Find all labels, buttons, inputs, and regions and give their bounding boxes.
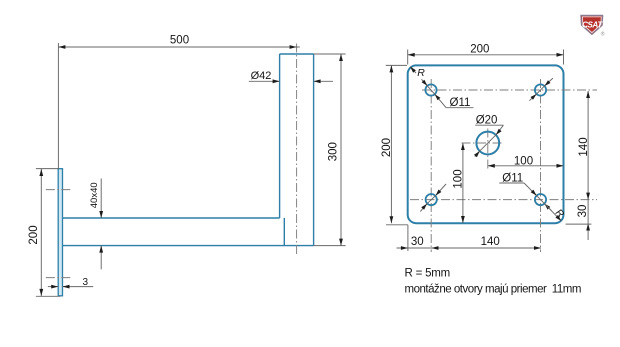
dim 200 top [408,44,564,65]
hole bottom-right [535,194,546,205]
svg-text:300: 300 [328,142,340,161]
dim 500 [58,35,299,169]
plate hole centerline upper [46,189,72,191]
dim 140 right + dim 30 right chain [566,91,592,240]
dim diameter 11 bottom-right with leader [499,173,551,211]
centerline through top holes [422,89,597,91]
bracket arm top edge [63,217,280,219]
hole top-right [535,84,546,95]
svg-text:140: 140 [578,137,590,156]
dim diameter 20 with leader [474,115,503,158]
svg-text:Ø11: Ø11 [502,173,523,185]
svg-text:3: 3 [83,277,89,288]
mounting plate (front view) [408,65,564,223]
dim 200 (wall plate height) [28,169,61,297]
dim diameter 11 arrows top-right [529,78,553,101]
dim diameter 42 [249,70,333,83]
center hole horizontal centerline [462,142,505,144]
hole bottom-left [426,194,437,205]
svg-text:montážne otvory majú priemer: montážne otvory majú priemer 11mm [405,284,581,296]
bracket arm/tube bottom edge [63,245,314,247]
center hole vertical centerline [487,129,489,172]
plate hole centerline lower [46,277,72,279]
tube centerline [296,44,298,255]
dim 30 + 140 bottom chain [397,225,542,251]
tube top edge [280,53,314,55]
dim diameter 11 arrows bottom-left [420,184,446,212]
centerline through left holes [430,79,432,252]
svg-text:140: 140 [481,236,500,248]
svg-text:40x40: 40x40 [89,182,100,208]
svg-text:200: 200 [28,225,40,244]
dim 100 horizontal [488,156,564,168]
center hole diameter 20 [476,132,499,155]
svg-text:500: 500 [170,35,189,47]
svg-text:100: 100 [453,169,465,188]
svg-text:200: 200 [381,138,393,157]
tube left edge [279,54,281,218]
dim 100 vertical [453,143,465,223]
tube right edge [313,54,315,246]
hole top-left [425,84,436,95]
svg-text:Ø42: Ø42 [251,70,272,82]
svg-text:Ø11: Ø11 [450,97,471,109]
svg-text:200: 200 [470,44,489,56]
svg-text:Ø20: Ø20 [476,115,498,127]
svg-text:R = 5mm: R = 5mm [405,267,451,279]
svg-text:®: ® [601,31,605,38]
dim 3 (plate thickness) [48,277,93,289]
svg-text:30: 30 [577,205,589,218]
dim 40x40 [89,179,103,270]
centerline through right holes [540,79,542,252]
centerline through bottom holes [410,199,597,201]
leader R top-left corner [410,67,425,80]
svg-text:CSAT: CSAT [582,21,603,30]
leader R bottom-right corner [544,204,565,221]
svg-text:100: 100 [514,156,533,168]
svg-text:R: R [417,67,425,79]
bracket arm end cap [283,218,285,246]
CSAT logo [581,15,605,37]
svg-text:30: 30 [411,236,424,248]
dim 200 left [381,65,408,224]
wall plate (side view) [58,169,62,296]
dim 300 [314,54,346,246]
dim diameter 11 top-left [422,79,474,109]
